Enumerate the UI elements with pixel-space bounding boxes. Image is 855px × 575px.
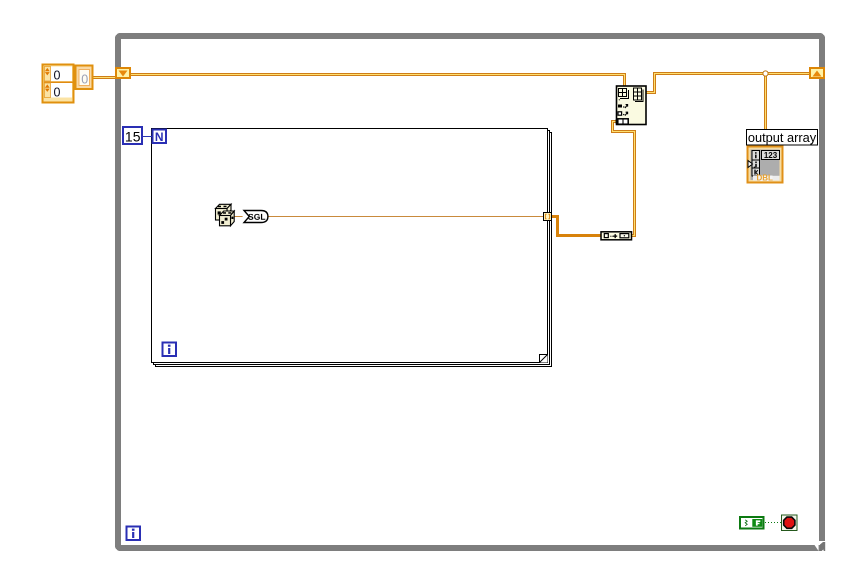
svg-text:SGL: SGL [248,212,265,222]
svg-text:0: 0 [54,85,61,99]
svg-text:DBL: DBL [756,174,773,183]
svg-text:123: 123 [764,151,778,160]
svg-text:0: 0 [54,69,61,83]
svg-text:N: N [155,130,164,144]
svg-text:output array: output array [748,130,817,145]
svg-text:0: 0 [81,72,88,86]
svg-text:15: 15 [125,129,141,145]
